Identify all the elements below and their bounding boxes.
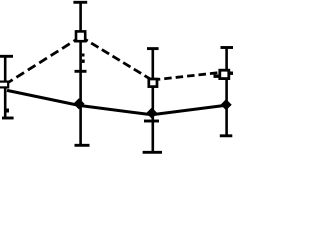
error bar column 2 top cap xyxy=(73,1,87,4)
error bar column 3 middle cap xyxy=(144,120,159,123)
error bar column 4 bottom cap xyxy=(220,134,233,137)
dashed series nub left of square 4 xyxy=(214,75,219,78)
open square marker 3 xyxy=(149,79,157,87)
dashed series nub right of square 4 xyxy=(230,72,233,75)
dashed series segment 2 xyxy=(81,37,152,80)
error bar column 2 bottom cap xyxy=(75,144,90,147)
error bar column 2 notch a xyxy=(82,54,85,57)
error bar column 3 bottom cap xyxy=(143,151,162,154)
error bar column 4 top cap xyxy=(221,46,234,49)
open square marker 1 xyxy=(0,82,8,88)
error bar column 3 top cap xyxy=(147,47,159,50)
error bar column 2 middle cap xyxy=(75,70,87,73)
solid series polyline xyxy=(7,90,226,114)
error bar column 2 vertical line xyxy=(79,2,82,146)
open square marker 2 xyxy=(76,31,85,41)
error bar column 1 top cap xyxy=(0,55,13,58)
dashed series segment 1 xyxy=(5,39,78,85)
filled diamond marker 2 xyxy=(73,98,84,109)
open square marker 4 xyxy=(220,70,229,78)
dashed series segment 3 xyxy=(153,72,225,80)
error bar column 1 bottom cap xyxy=(2,117,14,120)
error bar column 3 vertical line xyxy=(152,49,155,153)
error bar column 1 vertical line xyxy=(4,56,7,119)
filled diamond marker 4 xyxy=(221,99,232,110)
error bar column 2 notch b xyxy=(82,60,85,63)
filled diamond marker 3 xyxy=(146,108,157,119)
error bar column 4 vertical line xyxy=(225,48,228,136)
error bar column 1 notch xyxy=(6,109,9,113)
